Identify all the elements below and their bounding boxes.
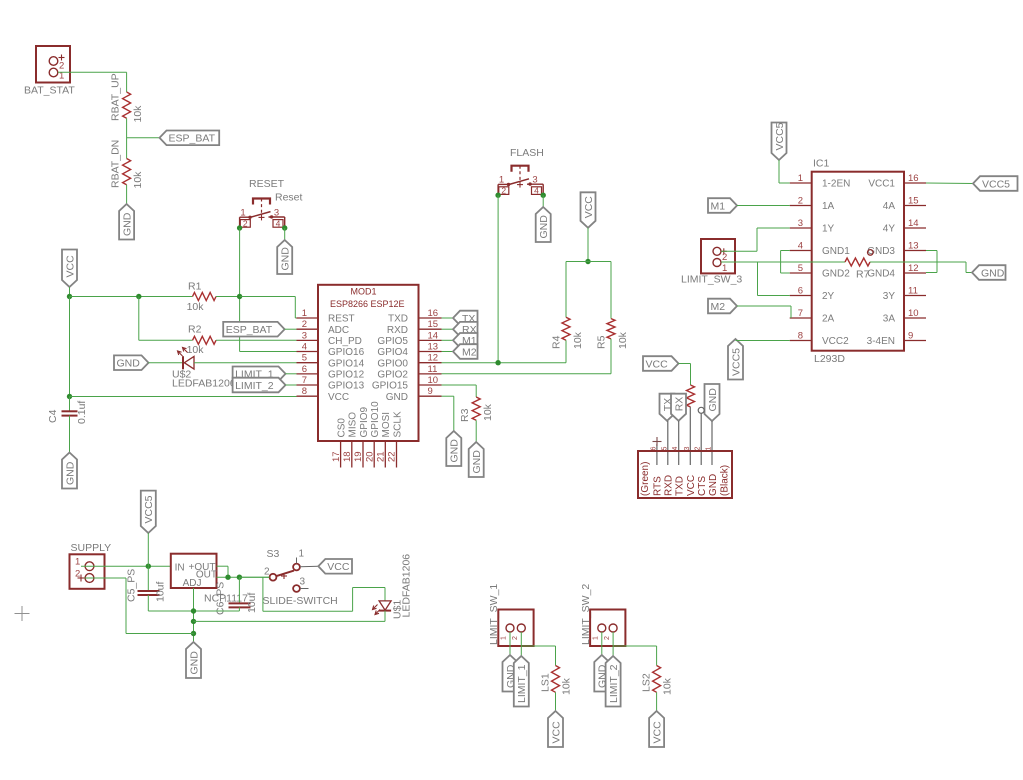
pin 8 VCC (left stub)	[297, 386, 350, 403]
svg-text:3: 3	[532, 175, 537, 186]
svg-text:VCC: VCC	[646, 358, 669, 370]
svg-text:0.1uf: 0.1uf	[76, 401, 88, 424]
svg-text:GND: GND	[121, 212, 133, 236]
svg-text:5: 5	[661, 447, 668, 451]
svg-text:VCC5: VCC5	[730, 348, 742, 376]
svg-text:ADJ: ADJ	[183, 578, 202, 589]
svg-text:VCC: VCC	[651, 721, 663, 744]
svg-text:(Green): (Green)	[640, 462, 651, 496]
wire GND1-GND2 bracket	[781, 251, 790, 274]
svg-text:ESP8266 ESP12E: ESP8266 ESP12E	[330, 299, 405, 309]
svg-text:10uf: 10uf	[155, 581, 167, 602]
pin 21 MOSI (bottom stub)	[376, 412, 393, 468]
svg-text:RXD: RXD	[387, 325, 408, 336]
svg-text:10k: 10k	[482, 403, 494, 421]
svg-text:2: 2	[302, 319, 307, 330]
wire GPIO2 net	[442, 373, 612, 375]
wire OUT to S3.2	[239, 576, 269, 578]
supply VCC (left)	[62, 250, 77, 288]
regulator U3 NCP1117 body	[171, 554, 248, 605]
svg-text:GND: GND	[708, 474, 719, 496]
svg-text:CTS: CTS	[697, 476, 708, 496]
svg-text:VCC: VCC	[328, 392, 349, 403]
pin 1 REST (left stub)	[297, 308, 355, 325]
op-amp U1 module MOD1 ESP8266 ESP12E body	[318, 285, 419, 441]
svg-text:2A: 2A	[822, 314, 835, 325]
ground GND (SW1)	[503, 655, 518, 692]
pin 7 GPIO13 (left stub)	[297, 375, 365, 392]
svg-text:3-4EN: 3-4EN	[867, 336, 895, 347]
FTDI pin name (Black)	[719, 465, 730, 496]
svg-text:14: 14	[428, 330, 439, 341]
svg-text:12: 12	[428, 353, 439, 364]
wire SUPPLY.2 to gnd	[85, 578, 194, 634]
FTDI pin number 6	[650, 447, 657, 451]
svg-text:S3: S3	[267, 548, 280, 560]
svg-text:19: 19	[353, 451, 364, 462]
label M1 (to 1A)	[708, 198, 737, 213]
wire pin15 to RX	[442, 328, 454, 330]
ground GND (SW2)	[594, 655, 609, 692]
ground GND (C4)	[62, 453, 77, 489]
svg-text:4: 4	[276, 218, 281, 228]
FTDI pin name RTS	[653, 476, 664, 496]
junction OUT a	[225, 575, 230, 580]
svg-text:GPIO5: GPIO5	[377, 336, 408, 347]
svg-text:GND: GND	[707, 388, 719, 412]
ground GND (reset)	[277, 240, 292, 274]
svg-text:GPIO16: GPIO16	[328, 347, 365, 358]
pin 19 GPIO9 (bottom stub)	[353, 406, 370, 467]
svg-text:GND1: GND1	[822, 246, 850, 257]
svg-text:LS2: LS2	[641, 673, 653, 692]
svg-text:RX: RX	[673, 397, 685, 412]
resistor R1 10k	[187, 281, 216, 314]
svg-text:5: 5	[302, 353, 307, 364]
wire FLASH pin4 to GND	[542, 195, 544, 207]
svg-text:18: 18	[342, 451, 353, 462]
plus mark (RTS)	[653, 437, 662, 446]
svg-text:VCC2: VCC2	[822, 336, 849, 347]
switch S3 slide-switch	[264, 549, 309, 592]
wire LIMIT_SW_3.1 net	[721, 261, 845, 263]
junction RESET pin4	[282, 225, 287, 230]
svg-text:3Y: 3Y	[883, 291, 896, 302]
svg-text:8: 8	[302, 386, 307, 397]
svg-text:LIMIT_SW_3: LIMIT_SW_3	[681, 274, 742, 286]
svg-text:1: 1	[299, 549, 305, 560]
svg-text:ESP_BAT: ESP_BAT	[226, 324, 273, 336]
FTDI pin name CTS	[697, 476, 708, 496]
supply VCC (S3)	[318, 559, 352, 574]
wire to ESP pin1 REST	[240, 297, 297, 319]
FTDI pin number 1	[706, 447, 713, 451]
svg-text:6: 6	[650, 447, 657, 451]
svg-text:VCC: VCC	[583, 196, 595, 219]
svg-text:R4: R4	[551, 335, 563, 349]
svg-text:M2: M2	[711, 301, 726, 313]
svg-text:14: 14	[908, 218, 919, 229]
svg-text:VCC5: VCC5	[774, 122, 786, 150]
wire R2 to ESP pin3 CH_PD	[216, 339, 297, 341]
FTDI pin 1 lead	[711, 421, 713, 465]
supply VCC5 (pin8 VCC2)	[728, 339, 743, 380]
wire VCC to R1	[70, 296, 193, 298]
pin 17 CS0 (bottom stub)	[331, 418, 348, 468]
svg-text:4A: 4A	[883, 201, 896, 212]
junction FLASH pin4	[541, 193, 546, 198]
svg-text:1: 1	[302, 308, 307, 319]
svg-text:16: 16	[908, 173, 919, 184]
svg-text:15: 15	[428, 319, 439, 330]
svg-text:1: 1	[798, 173, 803, 184]
svg-text:LEDFAB1206: LEDFAB1206	[172, 378, 236, 390]
label SLIDE-SWITCH	[263, 595, 338, 607]
wire VCC5 down	[147, 533, 149, 566]
ground GND (regulator)	[186, 642, 201, 678]
svg-text:7: 7	[798, 308, 803, 319]
svg-text:2: 2	[264, 567, 270, 578]
supply VCC5 (right)	[973, 176, 1018, 191]
svg-text:2: 2	[722, 252, 727, 263]
wire tap to ESP_BAT label	[127, 137, 160, 139]
label Reset	[275, 192, 303, 204]
svg-text:LIMIT_1: LIMIT_1	[516, 664, 528, 703]
wire SW1.1 to GND	[509, 632, 511, 655]
pushbutton FLASH	[498, 166, 543, 196]
label LIMIT_1 (SW1)	[514, 656, 529, 707]
resistor LS1 10k	[540, 666, 573, 696]
wire pin9 GND	[442, 396, 454, 431]
svg-text:4: 4	[534, 186, 539, 196]
junction gnd c	[191, 631, 196, 636]
IC1 pin 2 1A (left stub)	[790, 196, 835, 213]
IC1 pin 14 4Y (right stub)	[883, 218, 926, 235]
wire VCC to R6	[679, 364, 691, 386]
svg-text:RESET: RESET	[249, 178, 285, 190]
junction R1/RESET node	[237, 294, 242, 299]
IC1 pin 10 3A (right stub)	[883, 308, 926, 325]
supply VCC (pullups)	[581, 192, 596, 228]
wire GND3-GND4 bracket	[926, 251, 937, 273]
svg-text:R7: R7	[856, 269, 870, 281]
wire R4-R5 top rail	[566, 262, 611, 319]
pin 13 GPIO4 (right stub)	[377, 342, 441, 359]
svg-text:VCC: VCC	[686, 475, 697, 496]
label LIMIT_SW_2	[580, 584, 592, 645]
svg-text:6: 6	[302, 364, 307, 375]
label LIMIT_SW_1	[488, 584, 500, 645]
wire R3 to GND	[475, 420, 477, 442]
svg-text:RXD: RXD	[664, 475, 675, 496]
svg-text:GND: GND	[188, 651, 200, 675]
connector LIMIT_SW_2	[590, 610, 625, 647]
wire R7 to GND flag	[870, 262, 972, 273]
svg-text:2: 2	[512, 636, 519, 640]
wire VCC5 to pin1 1-2EN	[779, 160, 790, 183]
IC1 pin 16 VCC1 (right stub)	[868, 173, 926, 190]
svg-text:FLASH: FLASH	[510, 147, 544, 159]
svg-text:13: 13	[428, 342, 439, 353]
supply VCC (ftdi)	[643, 356, 679, 371]
svg-text:MOD1: MOD1	[351, 287, 377, 297]
IC1 pin 3 1Y (left stub)	[790, 218, 835, 235]
svg-text:GND: GND	[64, 461, 76, 485]
svg-text:1: 1	[706, 447, 713, 451]
svg-text:RBAT_DN: RBAT_DN	[110, 140, 122, 188]
pin 22 SCLK (bottom stub)	[387, 411, 404, 467]
pin 12 GPIO0 (right stub)	[377, 353, 441, 370]
svg-text:2: 2	[501, 186, 506, 196]
FTDI pin 4 lead	[678, 421, 680, 465]
FTDI pin 3 lead	[689, 407, 691, 465]
svg-text:3: 3	[300, 577, 306, 588]
svg-text:10: 10	[428, 375, 439, 386]
svg-text:GND: GND	[386, 392, 408, 403]
svg-text:C5_PS: C5_PS	[126, 569, 138, 602]
connector LIMIT_SW_1	[498, 610, 533, 647]
svg-text:GPIO13: GPIO13	[328, 381, 365, 392]
FTDI pin number 5	[661, 447, 668, 451]
label RESET	[249, 178, 285, 190]
IC1 pin 4 GND1 (left stub)	[790, 241, 851, 258]
IC1 pin 8 VCC2 (left stub)	[790, 331, 849, 348]
svg-text:R2: R2	[188, 324, 202, 336]
ic U2 IC1 L293D body	[812, 158, 904, 366]
capacitor C5_PS 10uf	[126, 566, 167, 611]
FTDI pin name (Green)	[640, 462, 651, 496]
pin 10 GPIO15 (right stub)	[372, 375, 442, 392]
wire pin16 VCC1 to VCC5	[926, 182, 973, 185]
pin 4 GPIO16 (left stub)	[297, 342, 365, 359]
label RX	[453, 322, 478, 337]
junction R2 tap	[136, 294, 141, 299]
svg-text:22: 22	[387, 451, 398, 462]
FTDI pin name TXD	[675, 476, 686, 496]
ground GND (IC1 right)	[972, 265, 1006, 280]
svg-text:1: 1	[75, 557, 80, 568]
wire LS1 to VCC	[555, 692, 557, 711]
wire GND to LED U$2	[149, 362, 183, 364]
IC1 pin 12 GND4 (right stub)	[867, 263, 926, 280]
IC1 pin 1 1-2EN (left stub)	[790, 173, 851, 190]
FTDI pin 6 lead	[656, 444, 658, 465]
svg-text:TXD: TXD	[675, 476, 686, 496]
connector SUPPLY	[70, 554, 105, 589]
junction VCC node	[67, 294, 72, 299]
wire LIMIT_SW_3.2 to 1Y	[721, 228, 790, 251]
pin 16 TXD (right stub)	[388, 308, 442, 325]
svg-text:16: 16	[428, 308, 439, 319]
svg-text:LEDFAB1206: LEDFAB1206	[401, 554, 413, 618]
IC1 pin 5 GND2 (left stub)	[790, 263, 851, 280]
resistor R6 pullup	[687, 385, 695, 407]
svg-text:2: 2	[695, 447, 702, 451]
label LIMIT_2	[233, 378, 286, 393]
wire R2 branch	[139, 297, 193, 341]
svg-text:13: 13	[908, 241, 919, 252]
label FLASH	[510, 147, 544, 159]
label ESP_BAT (to ADC)	[223, 322, 284, 337]
wire VCC column down	[69, 297, 71, 397]
label M2	[453, 344, 478, 359]
wire S3.1 to VCC	[300, 565, 318, 568]
svg-text:LIMIT_2: LIMIT_2	[608, 664, 620, 703]
ground GND (ftdi)	[705, 384, 720, 421]
svg-text:CH_PD: CH_PD	[328, 336, 362, 347]
svg-text:Reset: Reset	[275, 192, 303, 204]
wire OUT to OUT2	[217, 566, 229, 577]
wire ESP_BAT to pin2	[285, 328, 297, 330]
svg-text:2Y: 2Y	[822, 291, 835, 302]
svg-text:RTS: RTS	[653, 476, 664, 496]
junction GPIO0/FLASH	[495, 360, 500, 365]
svg-text:L293D: L293D	[814, 353, 845, 365]
svg-text:MISO: MISO	[348, 412, 359, 438]
node circle (CTS)	[698, 407, 704, 413]
svg-text:R3: R3	[459, 408, 471, 422]
svg-text:LS1: LS1	[540, 673, 552, 692]
wire to ESP pin8 VCC	[70, 396, 297, 398]
wire GPIO15 to R3	[442, 385, 477, 397]
svg-text:1: 1	[240, 207, 245, 218]
wire M2 to pin7	[737, 306, 791, 318]
svg-text:1: 1	[722, 263, 727, 274]
wire LED to gnd rail	[194, 611, 386, 622]
label M1	[453, 333, 478, 348]
svg-text:IN: IN	[175, 562, 185, 573]
svg-text:17: 17	[331, 451, 342, 462]
FTDI pin name VCC	[686, 475, 697, 496]
ground GND (flash)	[536, 207, 551, 242]
svg-text:1: 1	[592, 636, 599, 640]
label RX (ftdi)	[671, 394, 686, 421]
ground GND (ESP pin9)	[446, 431, 461, 466]
svg-text:1-2EN: 1-2EN	[822, 179, 850, 190]
svg-text:M2: M2	[462, 346, 477, 358]
svg-text:10k: 10k	[561, 677, 573, 695]
svg-text:GPIO2: GPIO2	[377, 369, 408, 380]
svg-text:3: 3	[798, 218, 803, 229]
wire to LED U$1	[263, 577, 385, 611]
svg-text:VCC: VCC	[327, 561, 350, 573]
capacitor C6_PS 10uf	[215, 577, 259, 615]
svg-text:10k: 10k	[132, 171, 144, 189]
ground GND (U$2 led)	[114, 355, 149, 370]
svg-text:GPIO4: GPIO4	[377, 347, 408, 358]
wire RBAT_DN to GND	[126, 185, 128, 204]
connector LIMIT_SW_3	[681, 239, 742, 286]
svg-text:11: 11	[908, 286, 918, 297]
junction gnd b	[191, 619, 196, 624]
connector FTDI header body	[638, 451, 732, 498]
svg-text:10k: 10k	[187, 301, 205, 313]
wire RBAT_UP to RBAT_DN	[126, 118, 128, 158]
svg-text:4: 4	[798, 241, 803, 252]
label ESP_BAT	[160, 131, 220, 146]
pin 2 ADC (left stub)	[297, 319, 350, 336]
wire branch to 2Y	[758, 262, 790, 296]
connector BAT_STAT	[24, 46, 75, 97]
svg-text:M1: M1	[711, 200, 726, 212]
svg-text:8: 8	[798, 331, 803, 342]
svg-text:GND: GND	[117, 358, 141, 370]
svg-text:1: 1	[501, 636, 508, 640]
svg-text:2: 2	[604, 636, 611, 640]
svg-text:VCC: VCC	[64, 255, 76, 278]
svg-text:6: 6	[798, 286, 803, 297]
resistor R5 10k	[596, 319, 630, 349]
FTDI pin name RXD	[664, 475, 675, 496]
IC1 pin 9 3-4EN (right stub)	[867, 331, 926, 348]
svg-text:7: 7	[302, 375, 307, 386]
svg-text:10k: 10k	[132, 105, 144, 123]
svg-text:3: 3	[684, 447, 691, 451]
resistor R4 10k	[551, 317, 585, 349]
resistor R7 (across GND pins)	[845, 258, 870, 281]
svg-text:11: 11	[428, 364, 438, 375]
svg-text:4: 4	[302, 342, 307, 353]
svg-text:C6_PS: C6_PS	[215, 582, 227, 615]
FTDI pin number 2	[695, 447, 702, 451]
svg-text:20: 20	[364, 451, 375, 462]
pin 11 GPIO2 (right stub)	[377, 364, 441, 381]
wire OUT rail	[217, 576, 270, 578]
svg-text:TXD: TXD	[388, 314, 408, 325]
supply VCC5 (IC1 pin1)	[772, 122, 787, 160]
svg-text:10: 10	[908, 308, 919, 319]
wire SW2.1 to GND	[601, 632, 603, 655]
svg-text:10k: 10k	[187, 344, 205, 356]
resistor LS2 10k	[641, 666, 674, 696]
pin 3 CH_PD (left stub)	[297, 330, 362, 347]
junction VCC/ESP-VCC node	[67, 394, 72, 399]
svg-text:VCC1: VCC1	[868, 179, 895, 190]
wire VCC5 to pin8	[736, 340, 790, 342]
junction RESET pin2	[237, 225, 242, 230]
svg-text:4Y: 4Y	[883, 224, 896, 235]
supply VCC (LS1)	[548, 711, 563, 747]
pin 15 RXD (right stub)	[387, 319, 442, 336]
wire ADJ / ground column	[193, 588, 195, 642]
svg-text:VCC: VCC	[550, 721, 562, 744]
svg-text:RBAT_UP: RBAT_UP	[110, 73, 122, 121]
supply VCC (LS2)	[649, 711, 664, 747]
resistor RBAT_UP 10k	[110, 73, 144, 122]
led U$1 LEDFAB1206	[373, 554, 413, 619]
wire LIMIT_2 to pin7	[286, 384, 297, 386]
svg-text:12: 12	[908, 263, 919, 274]
svg-text:GPIO0: GPIO0	[377, 358, 408, 369]
svg-text:3: 3	[302, 330, 307, 341]
svg-text:GND: GND	[280, 247, 292, 271]
svg-text:LIMIT_2: LIMIT_2	[235, 380, 274, 392]
wire GPIO0 net	[442, 362, 567, 364]
wire ground rail C5-C6	[148, 610, 239, 612]
resistor RBAT_DN 10k	[110, 140, 144, 189]
node circle (GND3)	[868, 250, 874, 256]
svg-text:SLIDE-SWITCH: SLIDE-SWITCH	[263, 595, 338, 607]
svg-text:GPIO14: GPIO14	[328, 358, 365, 369]
svg-text:5: 5	[798, 263, 803, 274]
svg-text:ESP_BAT: ESP_BAT	[169, 133, 216, 145]
wire BAT_STAT.1 to RBAT_UP	[58, 72, 127, 92]
svg-text:REST: REST	[328, 314, 355, 325]
wire R5 to GPIO2	[610, 339, 612, 374]
label TX	[453, 311, 478, 326]
svg-text:15: 15	[908, 196, 919, 207]
wire SW1.2 to LIMIT_1	[520, 632, 522, 656]
